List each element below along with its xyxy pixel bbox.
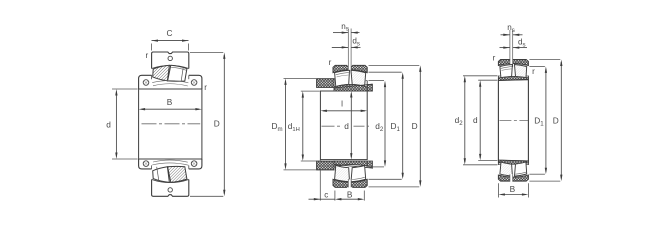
- svg-text:B: B: [510, 184, 516, 194]
- roller end-face line (view 1 bottom): [157, 167, 159, 182]
- inner ring and sleeve hatched band (view 2 bottom): [334, 161, 372, 168]
- dimension D (view 1): [190, 51, 223, 53]
- adapter sleeve nut block (view 2 bottom): [317, 161, 334, 170]
- svg-text:r: r: [532, 67, 535, 76]
- inner ring hatched band (view 3 top): [498, 76, 528, 80]
- inner ring shoulder left (view 3 bottom): [498, 164, 501, 166]
- svg-text:D: D: [412, 121, 418, 131]
- roller hatched top-left (view 1): [153, 65, 170, 81]
- side hole right (view 1 top): [191, 80, 197, 86]
- roller contour (view 3 bottom): [515, 172, 526, 174]
- cage arc 2 (view 1 bottom): [153, 160, 188, 162]
- svg-text:c: c: [324, 190, 328, 199]
- inner ring shoulder right (view 2 top): [366, 81, 368, 91]
- inner ring wide piece bottom (view 1): [139, 159, 202, 169]
- dimension d (view 1): [112, 88, 138, 90]
- cage arc 1 (view 1 bottom): [152, 163, 188, 165]
- lubrication channel (view 2 bottom): [348, 179, 351, 187]
- dimension D_1 (view 2): [369, 71, 402, 73]
- dimension d_2 (view 3): [463, 75, 497, 77]
- outer raceway arc top (view 1): [152, 66, 189, 69]
- lubrication hole top (view 1): [168, 56, 172, 60]
- cage arc 1 (view 1 top): [152, 81, 188, 83]
- roller contour (view 2 bottom): [352, 177, 365, 179]
- outer ring bottom (view 1): [152, 179, 189, 196]
- sleeve taper line (view 2 bottom): [334, 164, 372, 168]
- dimension C (view 1): [151, 44, 153, 51]
- svg-text:d: d: [106, 119, 111, 129]
- lubrication channel (view 2 top): [348, 65, 351, 73]
- roller plain top-left (view 3): [500, 65, 513, 79]
- roller contour b (view 2 top): [337, 75, 349, 77]
- bore rectangle (view 1): [139, 89, 202, 159]
- svg-text:d: d: [473, 115, 478, 125]
- dimension c (view 2): [319, 160, 321, 161]
- inner ring right face (view 3 bottom): [527, 161, 529, 165]
- lubrication hole bottom (view 1): [168, 188, 172, 192]
- lubrication channel (view 3 bottom): [510, 174, 513, 181]
- dimension B (view 3): [497, 183, 499, 197]
- centerline (view 1): [142, 123, 201, 125]
- outer ring bottom hatched (view 2): [333, 179, 367, 187]
- roller hatched bottom-left (view 3): [500, 162, 513, 176]
- roller hatched bottom-left (view 2): [335, 165, 350, 181]
- outer raceway arc bottom (view 1): [152, 179, 189, 182]
- svg-text:d: d: [344, 121, 349, 131]
- svg-text:r: r: [493, 54, 496, 63]
- dimension B (view 2): [363, 191, 365, 201]
- inner ring right face (view 3 top): [527, 76, 529, 80]
- step right (view 1 top): [188, 75, 190, 79]
- svg-text:B: B: [347, 189, 353, 199]
- svg-text:D: D: [214, 119, 220, 129]
- roller hatched bottom-right (view 1): [168, 166, 187, 182]
- step right (view 1 bottom): [188, 165, 190, 169]
- centerline (view 2): [322, 125, 342, 127]
- tapered bore rectangle (view 3): [498, 80, 528, 161]
- roller hatched top-right (view 3): [515, 65, 527, 79]
- cage arc 2 (view 1 top): [153, 84, 188, 86]
- inner ring shoulder right (view 3 top): [526, 75, 529, 77]
- roller plain top-left (view 2): [335, 70, 350, 86]
- roller plain bottom-left (view 1): [153, 167, 170, 183]
- sleeve taper line (view 2 top): [334, 84, 372, 88]
- inner ring left face (view 3 top): [497, 76, 499, 81]
- dimension d center (view 2): [350, 94, 352, 158]
- svg-text:D: D: [553, 115, 559, 125]
- inner ring shoulder right (view 2 bottom): [366, 161, 368, 167]
- roller end-face line (view 1 top): [181, 68, 183, 81]
- inner ring and sleeve hatched band (view 2 top): [334, 84, 372, 91]
- inner ring hatched band (view 3 bottom): [498, 160, 528, 164]
- svg-text:r: r: [329, 58, 332, 67]
- side hole left (view 1 top): [143, 80, 149, 86]
- dimension d_2 (view 2): [369, 80, 385, 82]
- outer ring top hatched (view 2): [333, 65, 367, 72]
- bore rectangle (view 2): [320, 91, 367, 160]
- svg-text:l: l: [341, 99, 343, 109]
- lubrication channel (view 3 top): [510, 60, 513, 67]
- inner ring wide piece top (view 1): [139, 75, 202, 89]
- dimension d (view 3): [478, 79, 497, 81]
- roller plain bottom-right (view 3): [515, 162, 527, 176]
- roller contour a (view 2 top): [336, 72, 349, 74]
- dimension D (view 2): [369, 64, 420, 66]
- inner ring shoulder right (view 3 bottom): [526, 164, 529, 166]
- side hole left (view 1 bottom): [143, 161, 149, 167]
- inner ring shoulder left (view 3 top): [498, 75, 501, 77]
- adapter sleeve nut block (view 2 top): [317, 79, 334, 88]
- dimension D (view 3): [529, 59, 560, 61]
- step left (view 1 bottom): [151, 165, 153, 169]
- roller contour (view 1 top): [171, 67, 186, 70]
- outer ring top (view 1): [152, 52, 189, 69]
- outer ring bottom hatched (view 3): [498, 175, 528, 181]
- svg-text:B: B: [167, 97, 173, 107]
- dimension D_m (view 2): [284, 77, 317, 79]
- side hole right (view 1 bottom): [191, 161, 197, 167]
- svg-text:r: r: [204, 83, 207, 92]
- roller hatched top-right (view 2): [351, 70, 366, 86]
- svg-text:C: C: [167, 28, 173, 38]
- roller contour a (view 3 top): [501, 67, 512, 69]
- svg-text:r: r: [145, 51, 148, 60]
- dimension D_1 (view 3): [529, 65, 545, 67]
- outer ring top hatched (view 3): [498, 60, 528, 66]
- dimension d_1H (view 2): [301, 90, 320, 92]
- centerline (view 3): [499, 119, 528, 121]
- roller plain top-right (view 1): [168, 65, 187, 81]
- inner ring left face (view 3 bottom): [497, 160, 499, 165]
- roller plain bottom-right (view 2): [351, 166, 366, 182]
- roller contour b (view 3 top): [502, 69, 512, 71]
- step left (view 1 top): [151, 75, 153, 79]
